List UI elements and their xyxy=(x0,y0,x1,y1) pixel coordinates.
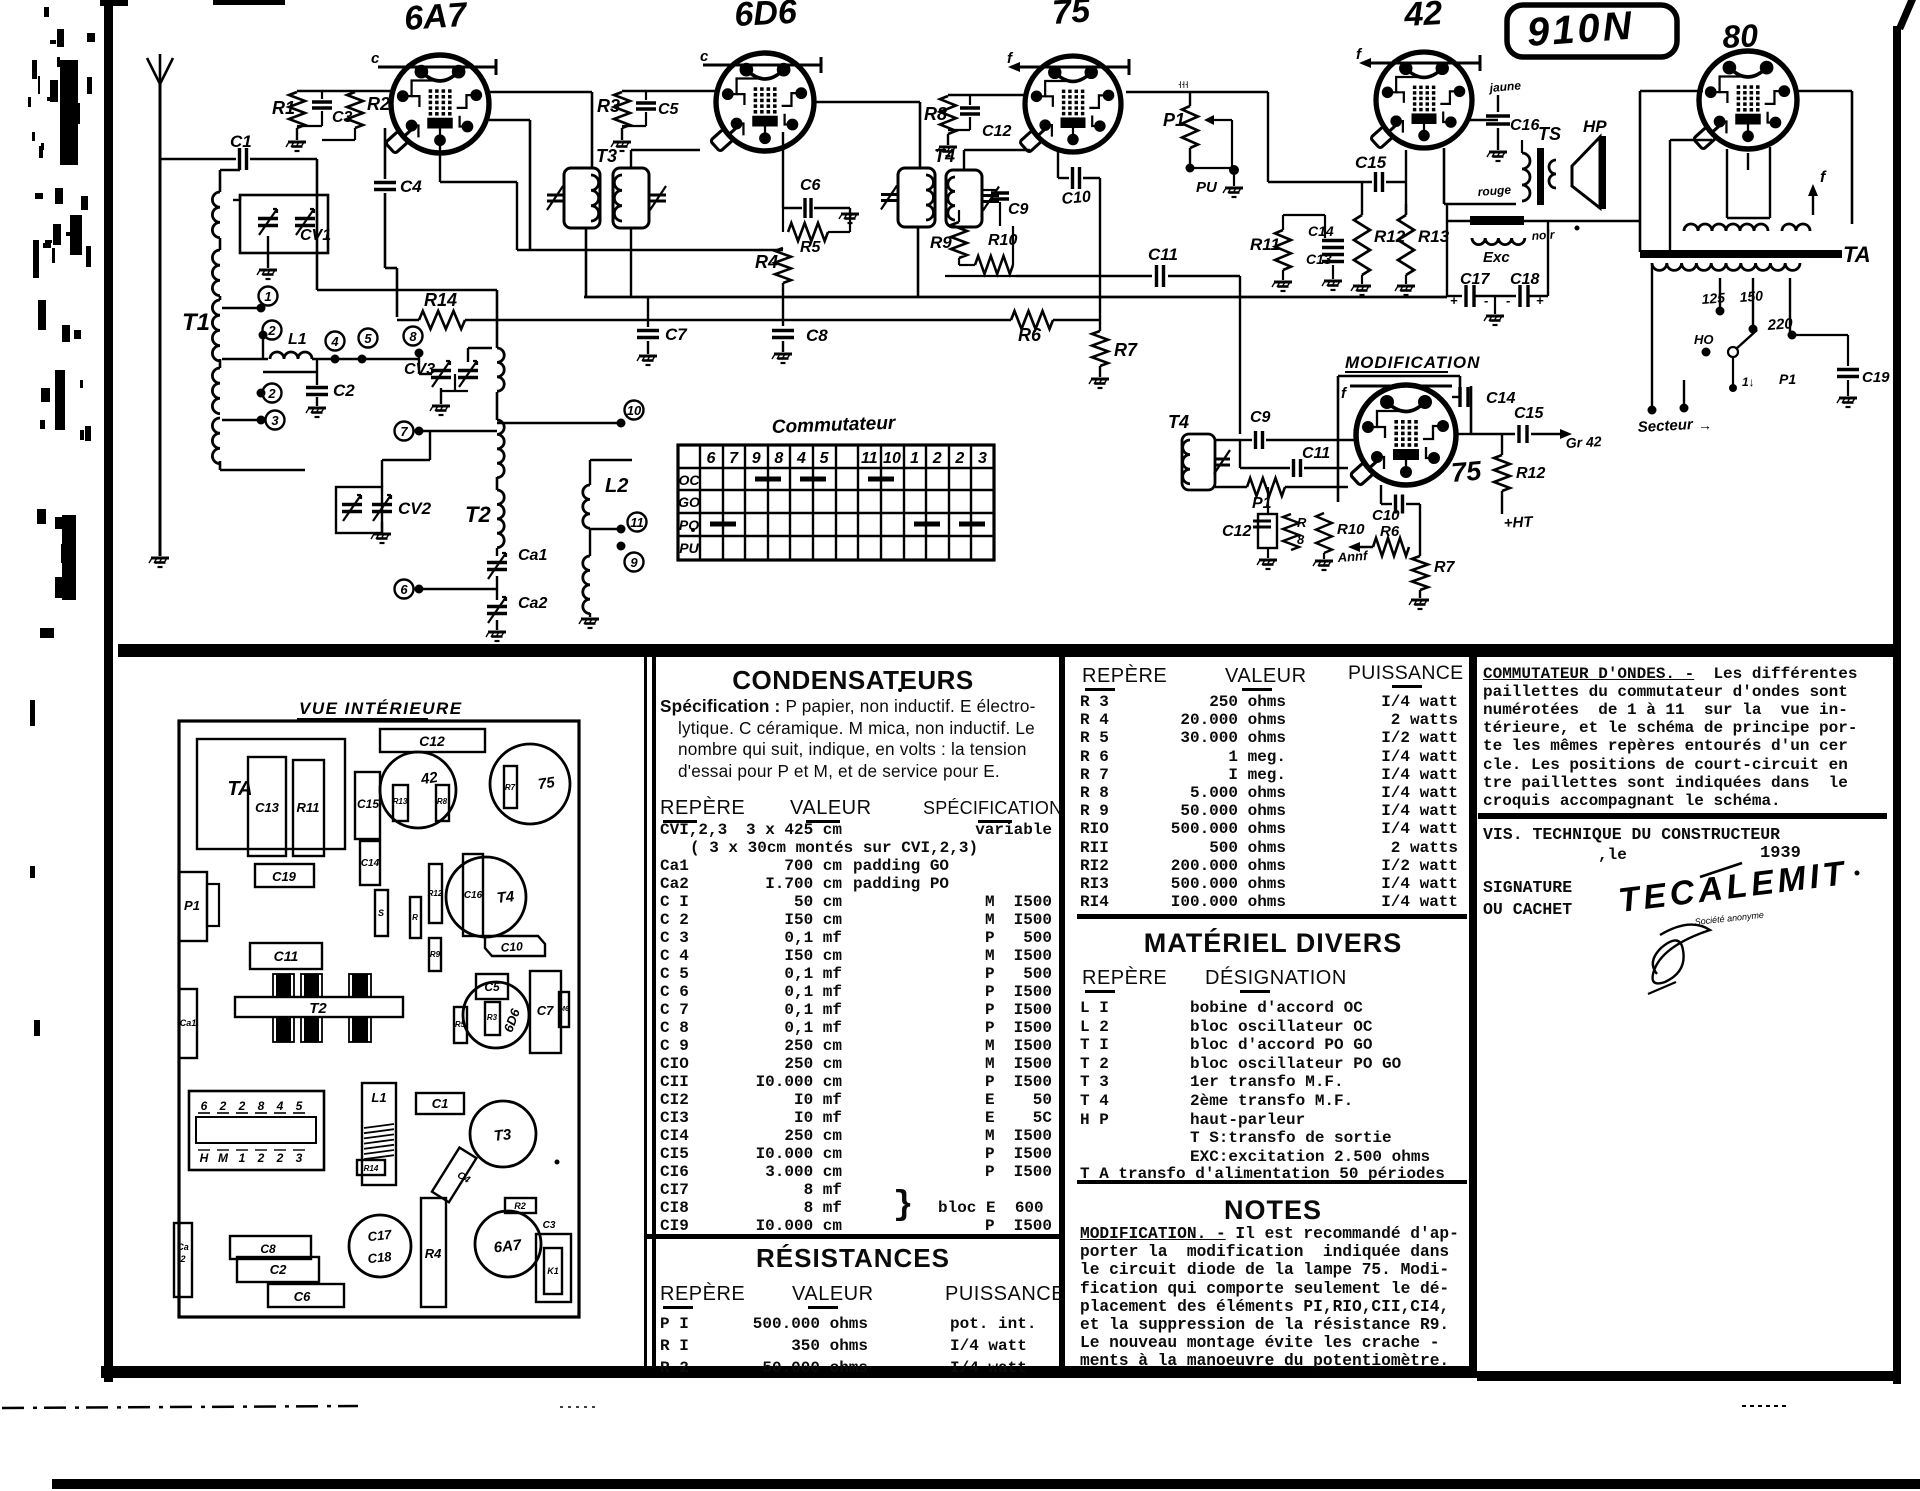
svg-text:Société anonyme: Société anonyme xyxy=(1694,910,1764,927)
svg-text:TECALEMIT: TECALEMIT xyxy=(1616,854,1849,920)
